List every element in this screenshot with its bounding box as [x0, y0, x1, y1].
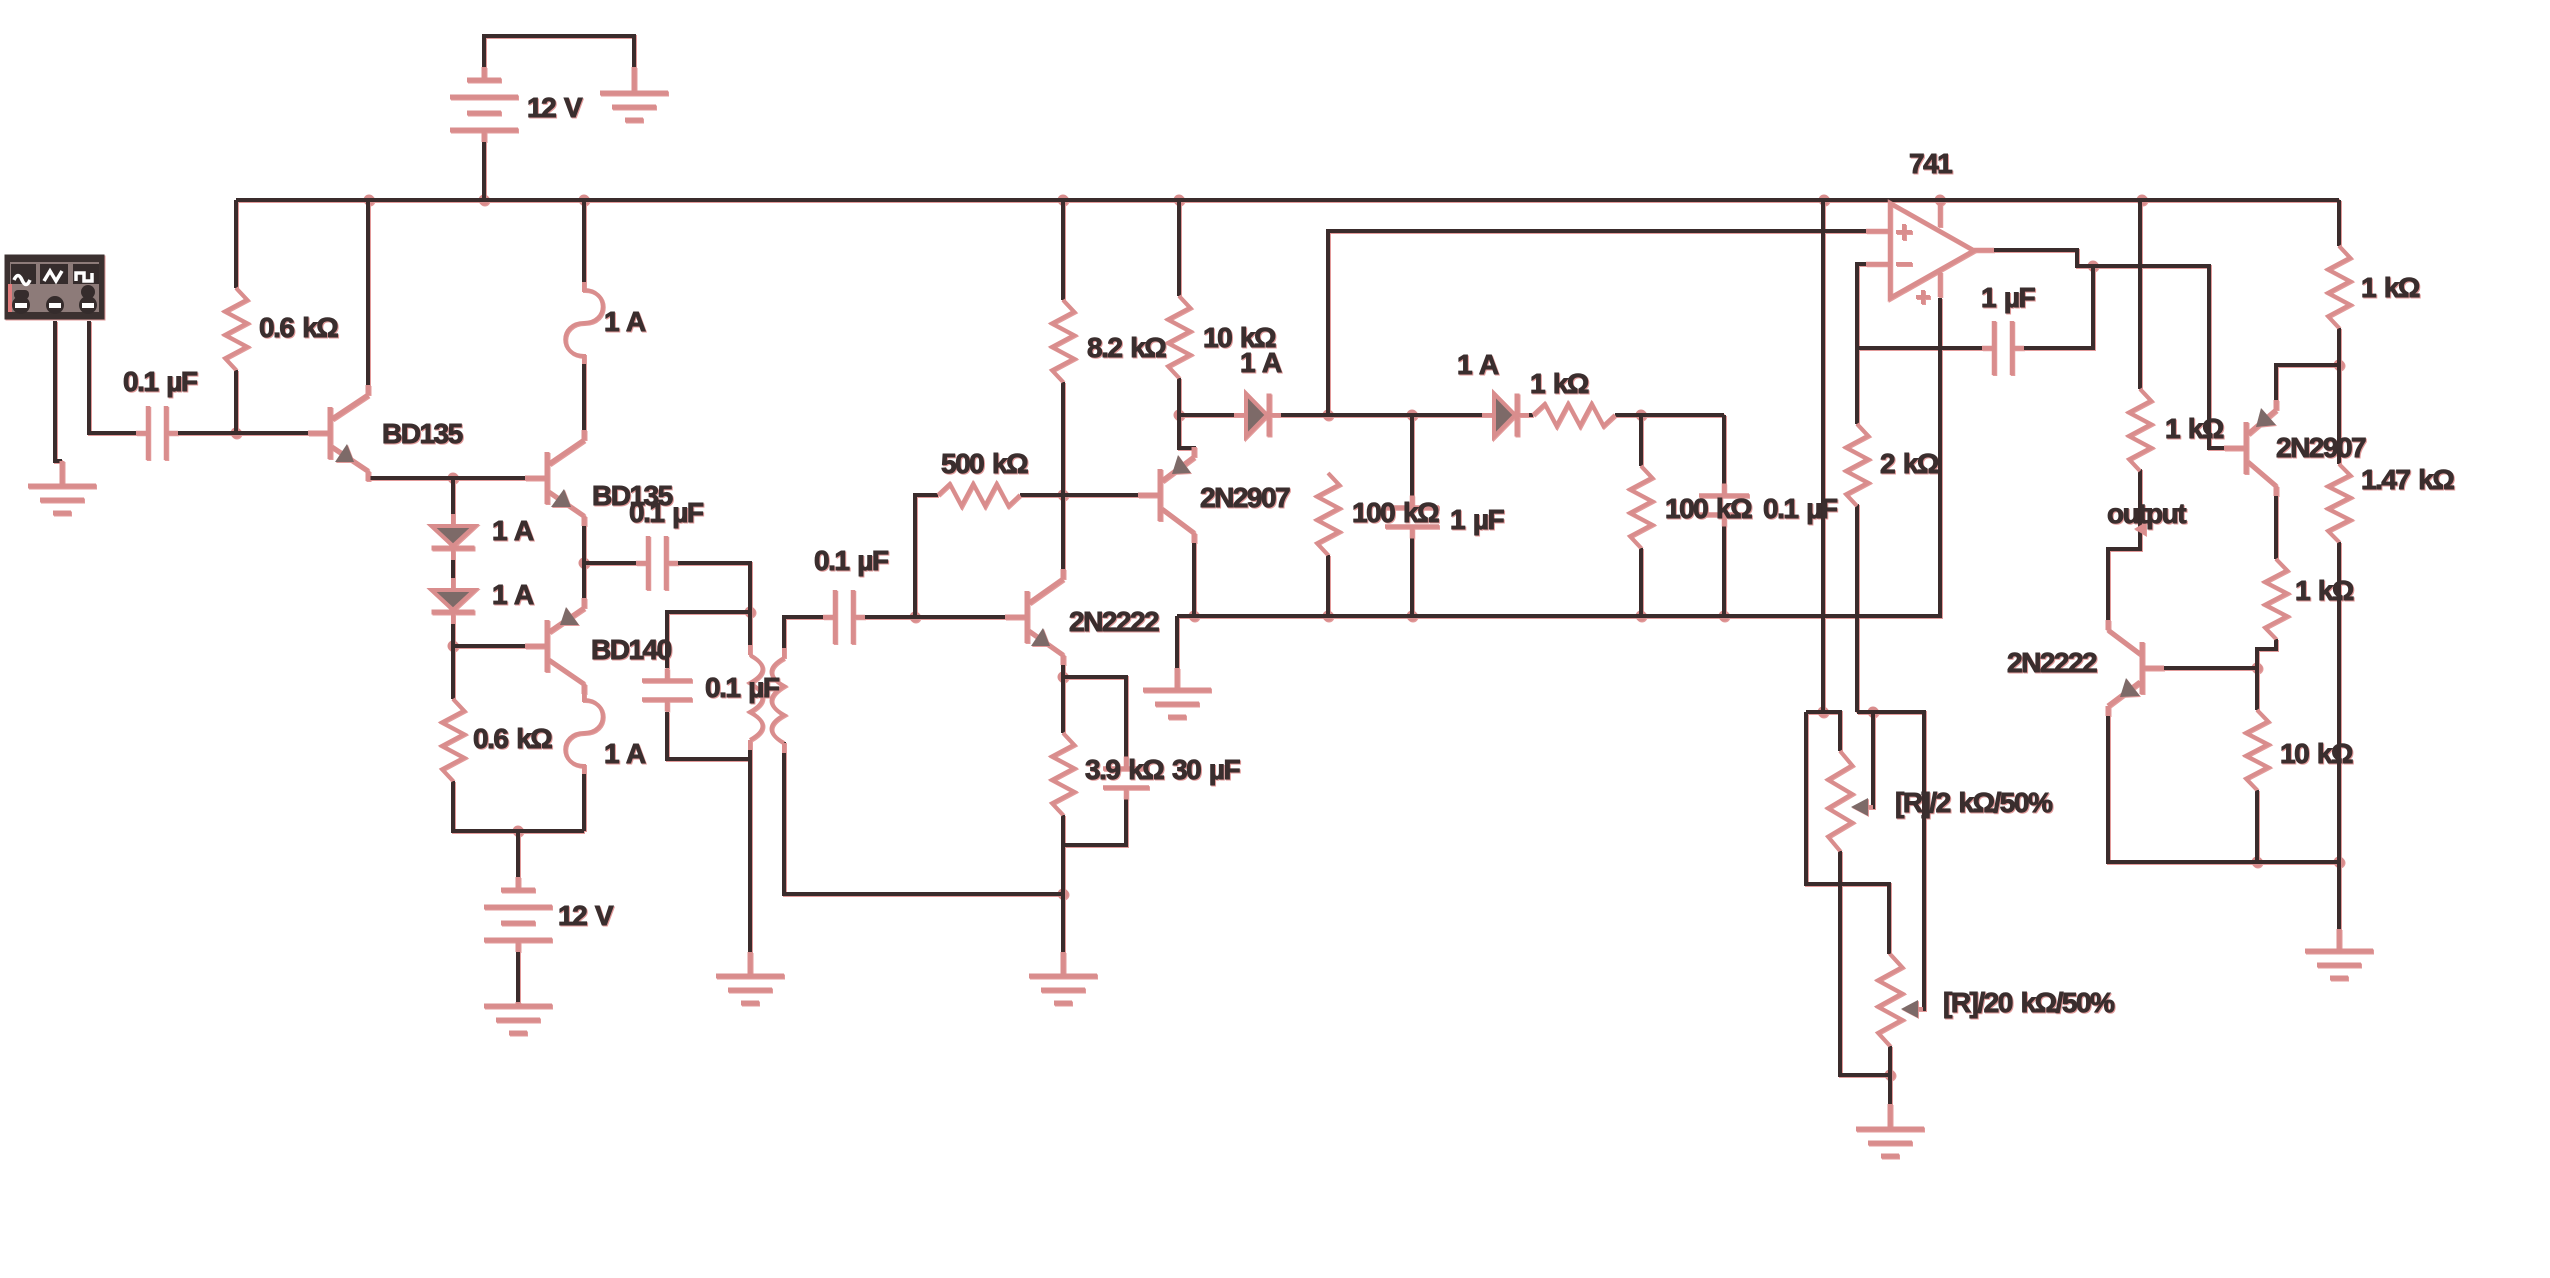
resistor R7 100k: [1317, 473, 1339, 555]
junction bus R11: [2137, 195, 2148, 206]
svg-text:100 kΩ: 100 kΩ: [1665, 493, 1752, 524]
junction D2 BD140 node: [448, 641, 459, 652]
svg-text:2N2907: 2N2907: [1200, 482, 1290, 513]
output net arrow marker: [2134, 522, 2146, 536]
op-amp U1 741: [1866, 202, 1994, 304]
wire R8 bottom to ground bus: [1639, 548, 1643, 616]
junction C5 ground bus: [1407, 611, 1418, 622]
wire Q1 emitter to Q2 base: [368, 478, 547, 481]
wire ground node to ground: [1061, 894, 1065, 952]
svg-text:0.6 kΩ: 0.6 kΩ: [259, 312, 338, 343]
transistor Q7 BD140: [525, 598, 584, 694]
wire emitter node to C2: [584, 561, 646, 565]
junction R3 C4 node: [910, 612, 921, 623]
svg-text:0.6 kΩ: 0.6 kΩ: [473, 723, 552, 754]
ground below P2: [1856, 1104, 1924, 1156]
wire C5 bottom to ground bus: [1410, 529, 1414, 616]
wire primary bottom to ground: [748, 740, 752, 952]
junction Q6 base R15: [2252, 663, 2263, 674]
diode D1 1A: [432, 514, 475, 560]
ground bottom right: [2305, 929, 2373, 978]
svg-text:0.1 µF: 0.1 µF: [814, 545, 889, 576]
svg-text:100 kΩ: 100 kΩ: [1352, 497, 1439, 528]
wire Q2 emitter to BD140 emitter: [582, 516, 586, 608]
svg-text:2N2222: 2N2222: [1069, 606, 1159, 637]
svg-text:BD135: BD135: [382, 418, 463, 449]
wire C3 bottom branch: [667, 712, 750, 759]
wire P1 left side to P2 top: [1806, 712, 1889, 954]
svg-text:1 A: 1 A: [492, 515, 534, 546]
resistor R9 3.9k: [1052, 733, 1074, 815]
resistor R8 100k: [1630, 466, 1652, 548]
battery V1 12V: [450, 67, 518, 142]
transistor Q2 BD135: [525, 430, 584, 526]
svg-text:741: 741: [1909, 148, 1952, 179]
svg-text:0.1 µF: 0.1 µF: [629, 497, 704, 528]
wire diode line to D3: [1179, 413, 1246, 417]
capacitor C5 1uF: [1385, 496, 1439, 539]
wire P2 bottom stub: [1888, 1046, 1892, 1104]
resistor R1 0.6k: [225, 288, 247, 370]
wire pot wiper bus: [1857, 712, 1924, 1009]
svg-text:1 µF: 1 µF: [1981, 282, 2035, 313]
resistor R13 1.47k: [2328, 464, 2350, 542]
wire Q6 emitter to bottom rail: [2108, 706, 2339, 862]
wire C1 to Q1 base: [178, 431, 330, 435]
resistor R14 1k: [2265, 559, 2287, 639]
wire battery V1 top loop to ground: [484, 36, 634, 67]
wire R1 bottom to input node: [234, 370, 238, 433]
junction Q3 emitter: [1058, 672, 1069, 683]
wire R12 to node: [2337, 328, 2341, 464]
wire bus to R1 top: [234, 200, 238, 288]
svg-text:[R]/20 kΩ/50%: [R]/20 kΩ/50%: [1943, 987, 2115, 1018]
svg-text:0.1 µF: 0.1 µF: [705, 672, 780, 703]
function generator XFG1: [5, 255, 104, 319]
wire bus to R5 10k: [1177, 200, 1181, 296]
wire node to BD140 base: [453, 644, 547, 648]
wire R2 bottom to battery V2 node: [453, 781, 584, 831]
wire op-amp minus input loop: [1857, 264, 1990, 348]
svg-text:1 A: 1 A: [492, 579, 534, 610]
svg-text:2 kΩ: 2 kΩ: [1880, 448, 1939, 479]
junction bus Q1 collector: [364, 195, 375, 206]
svg-text:1.47 kΩ: 1.47 kΩ: [2361, 464, 2454, 495]
diode D2 1A: [432, 578, 475, 624]
capacitor C4 0.1uF: [823, 590, 865, 644]
wire bus corner to R12 1k: [2337, 200, 2341, 246]
wire bus to potentiometer P1 top: [1821, 200, 1825, 712]
capacitor C8 1uF feedback: [1982, 321, 2024, 375]
fuse F1 1A: [565, 282, 603, 364]
junction output feedback: [2088, 261, 2099, 272]
junction bus V1: [479, 195, 490, 206]
wire R6 to C6 corner: [1615, 413, 1724, 417]
svg-text:1 A: 1 A: [604, 306, 646, 337]
capacitor C7 30uF: [1103, 757, 1149, 800]
wire C3 top branch: [667, 612, 750, 668]
resistor R5 10k: [1168, 296, 1190, 378]
wire secondary top to C4: [784, 617, 831, 658]
junction detector node: [1323, 410, 1334, 421]
diode D3 1A: [1234, 394, 1281, 437]
wire Q5 emitter to right rail: [2276, 365, 2339, 410]
wire bus to R4 8.2k: [1061, 200, 1065, 300]
resistor R12 1k: [2328, 246, 2350, 328]
fuse F2 1A: [565, 692, 603, 774]
junction R12 Q5 emitter: [2334, 360, 2345, 371]
junction bus pot feed: [1819, 195, 1830, 206]
svg-text:output: output: [2107, 498, 2186, 529]
wire node to R2 top: [451, 646, 455, 699]
wire emitter node to C7 branch: [1063, 677, 1126, 767]
svg-text:0.1 µF: 0.1 µF: [123, 366, 198, 397]
wire P1 wiper feed: [1868, 712, 1873, 807]
svg-text:[R]/2 kΩ/50%: [R]/2 kΩ/50%: [1895, 787, 2053, 818]
svg-text:8.2 kΩ: 8.2 kΩ: [1087, 332, 1166, 363]
junction diode line left: [1174, 410, 1185, 421]
capacitor C1 0.1uF: [136, 406, 178, 460]
junction R7 ground bus: [1323, 611, 1334, 622]
wire R15 bottom to rail: [2255, 790, 2259, 862]
wire R7 bottom to ground bus: [1326, 555, 1330, 616]
junction bus F1: [579, 195, 590, 206]
wire P1 bottom to P2 bottom: [1840, 851, 1890, 1075]
wire R5 to diode line: [1177, 378, 1181, 415]
wire emitter node to R9: [1061, 677, 1065, 733]
svg-text:1 kΩ: 1 kΩ: [2295, 575, 2354, 606]
wire battery V2 to ground: [516, 940, 520, 1004]
junction P2 bottom: [1885, 1070, 1896, 1081]
svg-text:1 A: 1 A: [1240, 347, 1282, 378]
wire ground bus tee to ground: [1175, 616, 1179, 668]
svg-text:1 A: 1 A: [1457, 349, 1499, 380]
svg-text:10 kΩ: 10 kΩ: [2280, 738, 2353, 769]
transistor Q1 BD135: [308, 385, 368, 481]
svg-text:1 µF: 1 µF: [1450, 504, 1504, 535]
junction P1 wiper feed: [1868, 707, 1879, 718]
svg-text:12 V: 12 V: [558, 900, 614, 931]
ground top right of V1: [600, 67, 668, 120]
wire C8 to output riser: [2016, 266, 2093, 348]
resistor R3 500k: [938, 484, 1020, 506]
svg-text:1 kΩ: 1 kΩ: [2361, 272, 2420, 303]
junction C5 diode line: [1407, 410, 1418, 421]
junction R3 R4 collector: [1058, 490, 1069, 501]
potentiometer P2 20k: [1878, 954, 1902, 1046]
wire P1 top segment: [1806, 712, 1840, 751]
ground below Q4: [1143, 668, 1211, 717]
junction C6 ground bus: [1719, 611, 1730, 622]
ground below XFG1: [28, 461, 96, 513]
wire secondary bottom to ground node: [784, 742, 1063, 894]
junction V2 node: [513, 826, 524, 837]
resistor R2 0.6k: [442, 699, 464, 781]
transistor Q4 2N2907: [1138, 447, 1194, 543]
wire op-amp output to Q5 base: [1993, 250, 2244, 448]
transformer T1: [750, 645, 784, 753]
junction R8 diode line: [1636, 410, 1647, 421]
wire corner to C6 cap: [1722, 415, 1726, 493]
wire Q4 collector to ground bus: [1192, 533, 1196, 616]
resistor R4 8.2k: [1052, 300, 1074, 382]
capacitor C6 0.1uF: [1699, 484, 1749, 527]
wire bus to R11 1k output column: [2138, 200, 2142, 389]
resistor R10 2k: [1846, 424, 1868, 506]
wire diode line to R8 100k: [1639, 415, 1643, 466]
wire R4 to Q3 collector: [1061, 382, 1065, 579]
wire R11 to step to Q6 collector: [2108, 469, 2140, 630]
wire C7 bottom to node: [1063, 790, 1126, 845]
junction P1 top feed: [1818, 707, 1829, 718]
junction R8 ground bus: [1636, 611, 1647, 622]
wire XFG1 common terminal to ground: [55, 321, 62, 461]
wire Q3 emitter node: [1061, 655, 1065, 677]
wire D2 cathode to node: [451, 614, 455, 646]
ground below R9: [1029, 952, 1097, 1003]
diode D4 1A: [1482, 394, 1529, 437]
ground below V2: [484, 1002, 552, 1033]
transistor Q6 2N2222: [2108, 620, 2164, 716]
wire C6 bottom to ground bus: [1722, 517, 1726, 616]
junction C3 primary: [745, 607, 756, 618]
junction bus op-amp V+: [1935, 195, 1946, 206]
wire R9 bottom to ground node: [1061, 815, 1065, 894]
capacitor C3 0.1uF: [642, 669, 692, 712]
wire F1 to Q2 collector: [582, 356, 586, 440]
resistor R15 10k: [2246, 710, 2268, 790]
wire R3 to Q4 base: [1020, 493, 1158, 497]
junction bus R4: [1058, 195, 1069, 206]
svg-text:1 kΩ: 1 kΩ: [1530, 368, 1589, 399]
wire Q1 collector to bus: [366, 200, 370, 395]
resistor R6 1k: [1533, 404, 1615, 426]
junction bus R5: [1174, 195, 1185, 206]
svg-text:1 A: 1 A: [604, 738, 646, 769]
wire D4 to R6 1k: [1518, 413, 1533, 417]
wire +12V top bus: [236, 198, 2339, 202]
svg-text:2N2907: 2N2907: [2276, 432, 2366, 463]
wire C2 to transformer primary: [668, 563, 750, 655]
svg-text:2N2222: 2N2222: [2007, 647, 2097, 678]
potentiometer P1 2k: [1828, 751, 1852, 851]
svg-text:12 V: 12 V: [527, 92, 583, 123]
junction R15 rail: [2252, 857, 2263, 868]
svg-text:0.1 µF: 0.1 µF: [1763, 493, 1838, 524]
transistor Q3 2N2222: [1005, 569, 1063, 665]
wire node to D1 anode: [451, 478, 455, 526]
svg-text:BD140: BD140: [591, 634, 672, 665]
svg-text:3.9 kΩ: 3.9 kΩ: [1085, 754, 1164, 785]
wire R13 bottom to ground corner: [2337, 542, 2341, 929]
wire Q6 base to node: [2142, 666, 2257, 670]
wire minus node to R10 2k: [1855, 348, 1859, 424]
wire XFG1 output terminal to C1: [89, 321, 136, 433]
transistor Q5 2N2907: [2224, 400, 2276, 496]
wire Q5 collector to R14: [2274, 486, 2278, 559]
wire diode line to C5 1uF: [1410, 415, 1414, 505]
resistor R11 1k output: [2129, 389, 2151, 471]
junction Q1 emitter node: [448, 473, 459, 484]
wire node to R3 500k: [915, 495, 938, 617]
wire D1 cathode to D2 anode: [451, 550, 455, 590]
junction R1 C1 node: [231, 428, 242, 439]
capacitor C2 0.1uF: [636, 536, 678, 590]
junction Q4 collector bus: [1189, 611, 1200, 622]
wire D3 to D4: [1270, 413, 1494, 417]
junction rail ground: [2334, 857, 2345, 868]
svg-text:500 kΩ: 500 kΩ: [941, 448, 1028, 479]
wire diode node to Q4 emitter: [1179, 415, 1194, 457]
junction emitter C2 node: [579, 558, 590, 569]
wire F2 bottom to node: [582, 766, 586, 831]
junction secondary R9 ground: [1058, 889, 1069, 900]
svg-text:30 µF: 30 µF: [1172, 754, 1241, 785]
wire node to battery V2: [516, 831, 520, 878]
wire R10 bottom to pot wiper line: [1855, 504, 1859, 712]
wire battery V1 to +12V bus: [482, 130, 486, 200]
wire detector node riser to op-amp plus input: [1328, 231, 1890, 415]
wire bus to fuse F1: [582, 200, 586, 290]
wire C4 to Q3 base: [857, 615, 1027, 619]
battery V2 12V: [484, 877, 552, 952]
wire ground bus right section to op-amp V-minus: [1177, 298, 1940, 616]
wire R14 bottom step to R15: [2257, 639, 2276, 710]
svg-text:1 kΩ: 1 kΩ: [2165, 413, 2224, 444]
ground below transformer primary: [716, 952, 784, 1003]
